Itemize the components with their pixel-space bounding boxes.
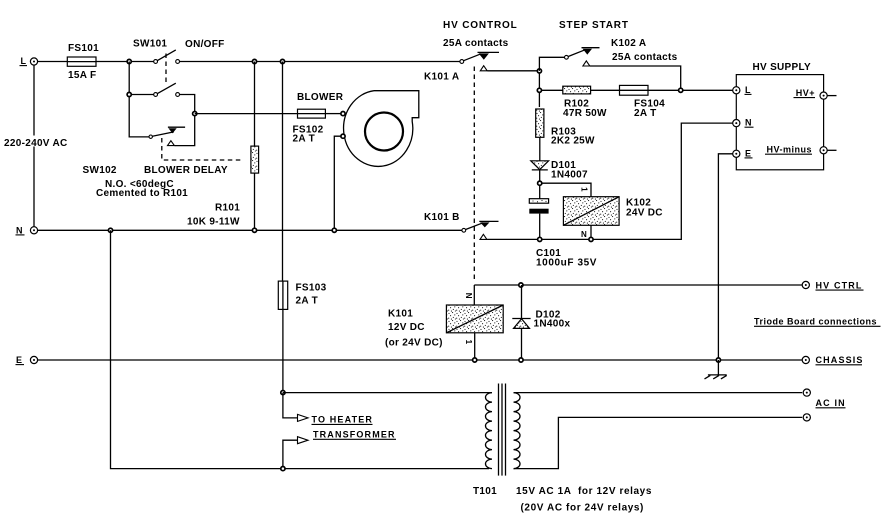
wire mains L-N vertical <box>33 65 35 227</box>
wire R101 bottom lead <box>254 173 256 230</box>
arrow TRANSFORMER <box>298 437 309 444</box>
resistor R101 <box>187 146 259 227</box>
svg-text:CHASSIS: CHASSIS <box>816 355 864 365</box>
svg-text:HV+: HV+ <box>796 88 815 98</box>
terminal L <box>20 56 38 66</box>
svg-text:BLOWER DELAY: BLOWER DELAY <box>144 165 228 176</box>
svg-text:BLOWER: BLOWER <box>297 92 344 103</box>
ground chassis symbol <box>705 360 727 379</box>
wire fused-L down to SW102 <box>129 97 149 137</box>
terminal E <box>16 355 38 365</box>
wire switched-L rail <box>180 61 460 63</box>
wire FS104 to HV L <box>648 89 733 91</box>
node K102 coil bottom <box>589 237 593 241</box>
blower motor B1 <box>344 91 419 167</box>
thermal switch SW102 <box>83 127 186 176</box>
svg-text:Cemented to R101: Cemented to R101 <box>96 188 188 199</box>
svg-text:1: 1 <box>580 187 589 192</box>
mechanical link SW101 <box>165 54 167 85</box>
wire node to K102 coil <box>542 183 591 197</box>
wire R102 to FS104 <box>591 89 620 91</box>
svg-text:FS101: FS101 <box>68 43 99 54</box>
svg-text:ON/OFF: ON/OFF <box>185 39 225 50</box>
svg-text:2K2 25W: 2K2 25W <box>551 136 595 147</box>
node D101 cathode junction <box>538 181 542 185</box>
wire K101 coil top lead <box>473 285 475 305</box>
svg-text:2A T: 2A T <box>293 134 316 145</box>
relay contact K101 A <box>424 52 499 82</box>
svg-text:R101: R101 <box>215 203 240 214</box>
contact output triangle K102 A <box>583 61 590 66</box>
terminal AC IN bottom <box>803 398 846 421</box>
thermal link dashed SW102 <box>162 138 241 160</box>
svg-text:SW102: SW102 <box>83 165 117 176</box>
node N rail heater branch <box>108 228 112 232</box>
wire D101 to node <box>539 170 541 181</box>
capacitor C101 <box>529 199 597 269</box>
svg-text:STEP START: STEP START <box>559 20 629 31</box>
relay coil K102 <box>563 197 662 226</box>
node R102 feed junction <box>537 88 541 92</box>
wire K101A output <box>487 70 537 72</box>
svg-text:(20V AC for 24V relays): (20V AC for 24V relays) <box>521 503 644 514</box>
fuse FS104 <box>620 85 666 119</box>
relay contact K101 B <box>462 221 499 232</box>
wire secondary top to AC IN <box>514 392 803 394</box>
wire K102 coil bottom lead <box>590 225 592 239</box>
contact output triangle K101 B <box>480 234 487 239</box>
wire FS102 to blower <box>325 113 340 115</box>
node heater junction bottom <box>281 467 285 471</box>
svg-text:N: N <box>745 118 752 128</box>
node heater junction top <box>281 391 285 395</box>
mechanical link K101 <box>473 67 475 282</box>
svg-text:AC IN: AC IN <box>816 398 846 408</box>
wire heater branch down from N rail <box>111 230 490 468</box>
wire blower return <box>334 136 341 228</box>
svg-text:1N400x: 1N400x <box>534 319 571 330</box>
svg-text:SW101: SW101 <box>133 39 167 50</box>
resistor R102 <box>563 86 607 119</box>
svg-text:15A F: 15A F <box>68 70 96 81</box>
terminal AC IN top <box>803 389 810 396</box>
wire primary top lead <box>283 392 492 394</box>
wire fused-L down to pole B <box>128 62 130 95</box>
node blower terminal top <box>341 112 345 116</box>
relay contact K102 A <box>565 48 600 59</box>
svg-text:15V AC 1A for 12V relays: 15V AC 1A for 12V relays <box>516 486 652 497</box>
arrow TO HEATER <box>298 414 309 421</box>
node R101 top <box>252 59 256 63</box>
svg-text:2A T: 2A T <box>296 296 319 307</box>
node K101A output junction <box>537 69 541 73</box>
node D102 bottom <box>519 358 523 362</box>
transformer T101 secondary winding <box>514 393 521 469</box>
terminal N <box>16 225 38 235</box>
transformer T101 core <box>499 384 506 476</box>
wire C101 bottom lead <box>539 214 541 240</box>
svg-text:25A contacts: 25A contacts <box>443 38 509 49</box>
fuse FS101 <box>67 43 99 81</box>
svg-text:FS103: FS103 <box>296 283 327 294</box>
svg-text:220-240V AC: 220-240V AC <box>4 138 68 149</box>
node blower feed junction <box>193 112 197 116</box>
wire R103 to D101 <box>539 137 541 161</box>
svg-text:L: L <box>745 85 751 95</box>
node blower terminal bottom <box>341 134 345 138</box>
terminal CHASSIS <box>802 355 863 365</box>
wire HV E to chassis <box>718 154 732 358</box>
fuse FS102 <box>293 109 326 144</box>
wire junction to R102 <box>538 73 540 107</box>
svg-text:(or 24V DC): (or 24V DC) <box>385 338 443 349</box>
wire N rail <box>38 229 462 231</box>
node FS104 output junction <box>679 88 683 92</box>
svg-text:K101 A: K101 A <box>424 72 459 83</box>
wire blower feed <box>195 113 298 115</box>
svg-text:1: 1 <box>464 340 473 345</box>
node pole B feed <box>127 92 131 96</box>
wire K102A bypass output <box>590 66 681 88</box>
wire L rail to fuse <box>38 61 68 63</box>
wire HV CTRL line <box>474 284 802 286</box>
svg-text:Triode Board connections: Triode Board connections <box>754 317 877 327</box>
resistor R103 <box>536 109 595 147</box>
svg-text:47R 50W: 47R 50W <box>563 108 607 119</box>
transformer T101 primary winding <box>486 393 492 469</box>
node FS103 feed <box>280 59 284 63</box>
contact output triangle SW102 <box>168 141 175 146</box>
svg-text:N: N <box>581 230 587 239</box>
svg-text:12V DC: 12V DC <box>388 322 425 333</box>
wire to heater arrow 1 <box>283 393 297 418</box>
svg-text:K102 A: K102 A <box>611 38 646 49</box>
wire pole B output <box>180 95 195 112</box>
node D102 top <box>519 283 523 287</box>
wire to R102 <box>542 89 563 91</box>
svg-text:1N4007: 1N4007 <box>551 170 588 181</box>
wire SW102 output up to blower feed node <box>175 116 195 146</box>
node chassis junction <box>716 358 720 362</box>
terminal HV L <box>733 85 752 95</box>
svg-text:L: L <box>21 56 27 66</box>
switch SW101 pole A <box>133 39 180 64</box>
svg-text:1000uF 35V: 1000uF 35V <box>536 258 597 269</box>
diode D101 <box>531 160 588 181</box>
terminal HV E <box>733 148 753 158</box>
wire node to C101 <box>539 185 541 198</box>
node blower return <box>332 228 336 232</box>
box HV SUPPLY <box>736 62 823 170</box>
svg-text:HV CONTROL: HV CONTROL <box>443 20 518 31</box>
svg-text:24V DC: 24V DC <box>626 208 663 219</box>
wire FS103 feed vertical <box>282 62 284 282</box>
terminal HV+ <box>794 88 837 99</box>
wire switched-N rail <box>487 123 733 239</box>
svg-text:HV SUPPLY: HV SUPPLY <box>753 62 811 73</box>
node K101 coil bottom <box>473 358 477 362</box>
fuse FS103 <box>278 281 326 309</box>
svg-text:K101 B: K101 B <box>424 212 460 223</box>
svg-text:N: N <box>16 225 23 235</box>
svg-text:K101: K101 <box>388 309 413 320</box>
svg-text:T101: T101 <box>473 486 497 497</box>
wire secondary bottom to AC IN <box>514 417 803 468</box>
svg-text:E: E <box>16 355 23 365</box>
svg-text:HV CTRL: HV CTRL <box>816 281 863 291</box>
node C101 bottom <box>538 237 542 241</box>
svg-text:TO HEATER: TO HEATER <box>312 415 374 425</box>
wire fuse to SW101 pole A <box>96 61 154 63</box>
label 220-240V AC <box>2 136 68 150</box>
svg-text:N: N <box>464 293 473 299</box>
terminal HV N <box>733 118 754 128</box>
wire D102 leads <box>521 285 523 360</box>
wire R101 top lead <box>254 62 256 147</box>
node fused-L junction <box>127 59 131 63</box>
svg-text:TRANSFORMER: TRANSFORMER <box>313 430 396 440</box>
wire to K102A pole <box>539 57 564 71</box>
svg-text:2A T: 2A T <box>634 108 657 119</box>
terminal HV-minus <box>765 145 837 155</box>
relay coil K101 <box>385 305 503 349</box>
diode D102 <box>512 310 570 330</box>
terminal HV CTRL <box>802 281 863 291</box>
wire from arrow 2 down to bottom rail <box>283 440 297 468</box>
contact output triangle K101 A <box>480 66 487 71</box>
switch SW101 pole B <box>132 83 180 96</box>
wire K101 coil bottom lead <box>474 333 476 360</box>
wire FS103 to heater node <box>282 309 284 392</box>
svg-text:HV-minus: HV-minus <box>766 145 812 155</box>
node R101 bottom <box>252 228 256 232</box>
wire E rail <box>38 359 803 361</box>
svg-text:10K 9-11W: 10K 9-11W <box>187 217 240 228</box>
svg-text:E: E <box>745 148 752 158</box>
svg-text:25A contacts: 25A contacts <box>612 52 678 63</box>
